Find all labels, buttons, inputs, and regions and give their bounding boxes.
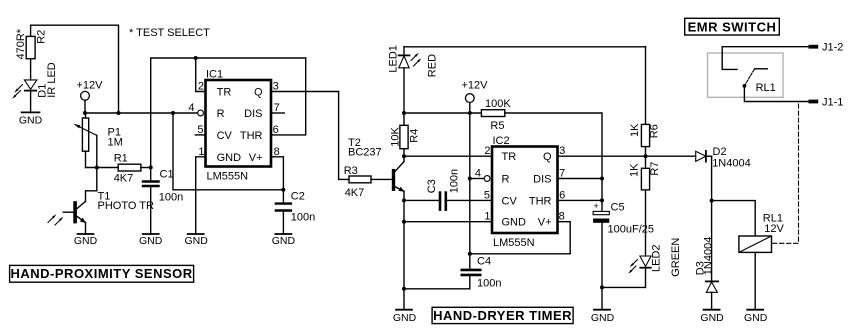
ground (T2 emitter rail) bbox=[393, 289, 417, 324]
node top rail / TR bbox=[194, 56, 198, 60]
potentiometer P1 bbox=[73, 113, 123, 168]
wire R2 top to test-select rail bbox=[31, 25, 119, 113]
node Q/R6/R7/D2 bbox=[644, 154, 648, 158]
pin 4 IC1 inversion circle bbox=[188, 102, 203, 116]
svg-text:6: 6 bbox=[559, 189, 565, 201]
connector J1-1 bbox=[744, 86, 843, 109]
ground (D3) bbox=[700, 310, 724, 324]
svg-text:C3: C3 bbox=[426, 179, 438, 193]
connector J1-2 bbox=[722, 42, 843, 54]
wire +12V rail to IC1 pin 4 bbox=[85, 112, 197, 114]
svg-text:+12V: +12V bbox=[77, 80, 104, 92]
pin 6 IC2 wire bbox=[558, 189, 603, 201]
svg-text:BC237: BC237 bbox=[348, 147, 382, 159]
op-amp U2: IC2 LM555N body bbox=[492, 135, 558, 249]
svg-text:+12V: +12V bbox=[462, 80, 489, 92]
wire node to relay coil bbox=[712, 201, 756, 236]
svg-text:J1-1: J1-1 bbox=[822, 96, 843, 108]
capacitor C3 bbox=[404, 169, 492, 210]
svg-text:GREEN: GREEN bbox=[670, 238, 682, 277]
svg-text:HAND-DRYER TIMER: HAND-DRYER TIMER bbox=[433, 308, 572, 323]
svg-text:C5: C5 bbox=[611, 202, 625, 214]
svg-text:CV: CV bbox=[217, 130, 233, 142]
op-amp U1: IC1 LM555N body bbox=[206, 69, 272, 183]
wire LED2 to C5 ground node bbox=[602, 286, 646, 288]
wire ground rail left bbox=[404, 288, 470, 290]
node C2/V+ bbox=[281, 188, 285, 192]
pin 8 IC2 wire to V+ return bbox=[470, 211, 570, 254]
wire R2 to D1 bbox=[30, 59, 32, 80]
capacitor C1 bbox=[143, 168, 183, 235]
svg-text:4: 4 bbox=[188, 102, 194, 114]
svg-text:* TEST SELECT: * TEST SELECT bbox=[129, 27, 210, 39]
svg-text:DIS: DIS bbox=[533, 174, 551, 186]
svg-text:THR: THR bbox=[240, 130, 263, 142]
pin 3 IC2 wire to R6/D2 bbox=[558, 145, 696, 157]
svg-text:8: 8 bbox=[274, 146, 280, 158]
svg-text:R7: R7 bbox=[649, 162, 661, 176]
svg-text:1K: 1K bbox=[629, 163, 641, 177]
svg-text:12V: 12V bbox=[764, 223, 784, 235]
svg-text:100n: 100n bbox=[291, 212, 315, 224]
svg-text:5: 5 bbox=[484, 189, 490, 201]
svg-text:3: 3 bbox=[559, 145, 565, 157]
svg-text:100n: 100n bbox=[159, 192, 183, 204]
resistor R7 bbox=[629, 156, 662, 256]
svg-text:R6: R6 bbox=[649, 124, 661, 138]
pin 1 IC1 to ground bbox=[196, 146, 206, 234]
svg-text:+: + bbox=[594, 201, 599, 211]
relay coil RL1 12V bbox=[739, 213, 785, 253]
svg-text:R: R bbox=[502, 174, 510, 186]
node LED1/+12V rail bbox=[402, 111, 406, 115]
svg-text:DIS: DIS bbox=[244, 108, 262, 120]
svg-text:GND: GND bbox=[502, 217, 527, 229]
svg-text:R: R bbox=[217, 108, 225, 120]
wire LED1/R6 top rail bbox=[404, 46, 646, 48]
wire P1 bottom to R1 bbox=[86, 167, 119, 169]
svg-text:IR LED: IR LED bbox=[46, 62, 58, 98]
pin 7 IC1 stub bbox=[271, 102, 284, 114]
svg-text:10K: 10K bbox=[390, 126, 402, 146]
ground (C5) bbox=[591, 287, 615, 324]
dashed link contact to coil bbox=[772, 104, 799, 243]
node R2/rail bbox=[117, 111, 121, 115]
svg-text:R5: R5 bbox=[490, 120, 504, 132]
diode D2 1N4004 bbox=[696, 146, 751, 170]
ground (IC1 pin 1) bbox=[185, 234, 209, 247]
diode D3 1N4004 bbox=[695, 237, 719, 310]
svg-text:GND: GND bbox=[185, 235, 209, 247]
node +12V/R5 bbox=[468, 111, 472, 115]
wire top rail to IC1 pin 2 bbox=[196, 58, 206, 92]
svg-text:1: 1 bbox=[198, 146, 204, 158]
svg-text:GND: GND bbox=[74, 235, 98, 247]
node rail/branch bbox=[171, 111, 175, 115]
node +12V/P1 bbox=[83, 111, 87, 115]
svg-text:5: 5 bbox=[197, 124, 203, 136]
svg-text:Q: Q bbox=[543, 151, 552, 163]
node R1/C1/TR bbox=[149, 166, 153, 170]
transistor T1 PHOTO TR bbox=[48, 168, 154, 235]
diode D1 IR LED bbox=[12, 62, 58, 112]
svg-text:GND: GND bbox=[591, 312, 615, 324]
title HAND-DRYER TIMER bbox=[432, 307, 573, 323]
svg-text:CV: CV bbox=[502, 195, 518, 207]
svg-text:R2: R2 bbox=[36, 30, 48, 44]
ground (T1 emitter) bbox=[74, 234, 98, 247]
svg-text:4K7: 4K7 bbox=[345, 187, 365, 199]
wire T2 emitter column bbox=[403, 191, 405, 288]
wire +12V branch down to V+ rail bbox=[173, 113, 283, 190]
svg-text:7: 7 bbox=[274, 102, 280, 114]
title HAND-PROXIMITY SENSOR bbox=[10, 265, 194, 282]
ground (C1) bbox=[139, 234, 163, 247]
node D2/D3/relay bbox=[710, 199, 714, 203]
pin 4 IC2 inversion circle bbox=[470, 168, 490, 182]
svg-text:470R*: 470R* bbox=[15, 28, 27, 59]
resistor R1 bbox=[114, 153, 141, 185]
resistor R4 bbox=[390, 113, 421, 156]
capacitor C5 100uF/25 bbox=[593, 200, 654, 287]
node THR bbox=[600, 198, 604, 202]
node reset pin 4 IC2 bbox=[468, 177, 472, 181]
label TEST SELECT bbox=[129, 27, 210, 39]
svg-text:RL1: RL1 bbox=[756, 82, 776, 94]
svg-text:R3: R3 bbox=[344, 165, 358, 177]
svg-text:GND: GND bbox=[393, 312, 417, 324]
node emitter/ground rail bbox=[402, 287, 406, 291]
pin 6 IC1 bbox=[273, 124, 279, 136]
transistor Q2: T2 BC237 bbox=[348, 137, 405, 192]
wire +12V down to reset node (vertical B) bbox=[469, 113, 471, 254]
svg-text:C4: C4 bbox=[477, 256, 491, 268]
svg-text:1M: 1M bbox=[108, 137, 123, 149]
pin 8 IC1 wire to V+ node bbox=[271, 146, 283, 190]
node emitter/C3 bbox=[402, 198, 406, 202]
svg-text:4K7: 4K7 bbox=[114, 173, 134, 185]
svg-text:1K: 1K bbox=[629, 123, 641, 137]
svg-text:100uF/25: 100uF/25 bbox=[608, 224, 654, 236]
svg-text:LED2: LED2 bbox=[651, 244, 663, 272]
pin 2 IC2 bbox=[484, 145, 490, 157]
svg-text:THR: THR bbox=[529, 195, 552, 207]
svg-text:4: 4 bbox=[475, 168, 481, 180]
node DIS bbox=[600, 177, 604, 181]
relay contact RL1 bbox=[722, 47, 776, 94]
wire +12V rail (right) bbox=[404, 112, 481, 114]
ground (C2) bbox=[272, 234, 296, 247]
svg-text:100n: 100n bbox=[449, 169, 461, 193]
pin 3 IC1 wire to R3 bbox=[271, 81, 349, 180]
svg-text:GND: GND bbox=[217, 152, 242, 164]
svg-text:Q: Q bbox=[254, 87, 263, 99]
svg-text:1N4004: 1N4004 bbox=[702, 237, 714, 276]
resistor R3 bbox=[344, 165, 371, 199]
svg-text:GND: GND bbox=[139, 235, 163, 247]
svg-text:3: 3 bbox=[273, 81, 279, 93]
svg-text:C2: C2 bbox=[291, 191, 305, 203]
svg-text:TR: TR bbox=[502, 151, 517, 163]
svg-text:GND: GND bbox=[272, 235, 296, 247]
pin 2 IC1 bbox=[198, 81, 204, 93]
svg-text:RED: RED bbox=[427, 54, 439, 77]
pin 5 IC2 bbox=[484, 189, 490, 201]
resistor R2 bbox=[15, 28, 48, 59]
svg-text:1: 1 bbox=[484, 211, 490, 223]
wire R3 to T2 base bbox=[371, 178, 392, 180]
capacitor C2 bbox=[276, 190, 315, 234]
svg-text:J1-2: J1-2 bbox=[822, 42, 843, 54]
title EMR SWITCH bbox=[685, 18, 780, 35]
svg-text:PHOTO TR: PHOTO TR bbox=[98, 200, 154, 212]
node emitter/GND row bbox=[402, 220, 406, 224]
supply +12V (left) bbox=[77, 80, 104, 114]
node C4/V+ return bbox=[468, 252, 472, 256]
svg-text:7: 7 bbox=[559, 168, 565, 180]
wire emitter node to IC2 pin 1 bbox=[404, 221, 492, 223]
svg-text:2: 2 bbox=[198, 81, 204, 93]
svg-text:LED1: LED1 bbox=[388, 45, 400, 73]
pin 7 IC2 wire bbox=[558, 168, 603, 180]
wire TR node up to top rail bbox=[151, 58, 306, 168]
supply +12V (right) bbox=[462, 80, 489, 114]
wire collector node to IC2 pin 2 bbox=[404, 155, 492, 157]
svg-text:GND: GND bbox=[700, 312, 724, 324]
svg-text:TR: TR bbox=[217, 87, 232, 99]
LED1 RED bbox=[388, 45, 439, 113]
svg-text:EMR SWITCH: EMR SWITCH bbox=[688, 19, 777, 34]
resistor R5 bbox=[481, 98, 511, 132]
svg-text:V+: V+ bbox=[249, 152, 263, 164]
svg-text:C1: C1 bbox=[160, 169, 174, 181]
svg-text:R1: R1 bbox=[114, 153, 128, 165]
ground (D1) bbox=[19, 112, 43, 126]
svg-text:R4: R4 bbox=[409, 129, 421, 143]
wire R1 to C1 node bbox=[141, 167, 151, 169]
pin 1 IC2 bbox=[484, 211, 490, 223]
wire D2 down to relay node bbox=[711, 156, 713, 283]
svg-text:GND: GND bbox=[19, 115, 43, 127]
svg-text:1N4004: 1N4004 bbox=[712, 158, 751, 170]
svg-text:D2: D2 bbox=[713, 146, 727, 158]
svg-text:100n: 100n bbox=[477, 278, 501, 290]
svg-text:HAND-PROXIMITY SENSOR: HAND-PROXIMITY SENSOR bbox=[11, 266, 193, 281]
node P1/R1/T1 bbox=[95, 166, 99, 170]
svg-text:LM555N: LM555N bbox=[493, 237, 535, 249]
svg-text:LM555N: LM555N bbox=[207, 171, 249, 183]
ground (relay coil) bbox=[744, 252, 768, 324]
pin 5 IC1 stub bbox=[195, 124, 205, 136]
svg-text:8: 8 bbox=[559, 211, 565, 223]
capacitor C4 bbox=[462, 254, 502, 290]
LED2 GREEN bbox=[628, 238, 682, 288]
node T2 collector / R4 bbox=[402, 154, 406, 158]
wire THR to top rail bbox=[271, 58, 306, 135]
svg-text:100K: 100K bbox=[485, 98, 511, 110]
wire R5 to DIS/THR column bbox=[505, 113, 602, 200]
svg-text:V+: V+ bbox=[538, 217, 552, 229]
svg-text:GND: GND bbox=[744, 312, 768, 324]
svg-text:6: 6 bbox=[273, 124, 279, 136]
node C5/ground bbox=[600, 285, 604, 289]
svg-text:IC1: IC1 bbox=[206, 69, 223, 81]
relay contact frame (gray box) bbox=[708, 53, 784, 97]
svg-text:IC2: IC2 bbox=[493, 135, 510, 147]
svg-text:2: 2 bbox=[484, 145, 490, 157]
resistor R6 bbox=[629, 47, 661, 156]
